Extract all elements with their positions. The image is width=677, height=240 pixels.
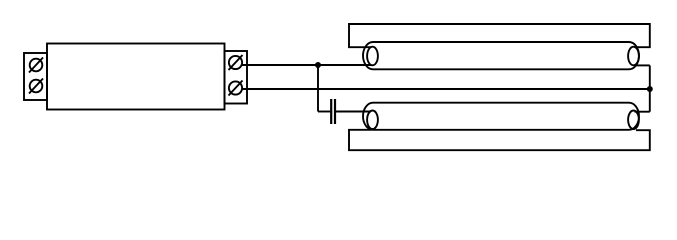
lamp L2 tube envelope: [363, 103, 639, 130]
lamp L1 left electrode: [367, 47, 378, 66]
wire: ballast upper terminal to lamp L1 left electrode: [242, 64, 372, 66]
lamp L2 left electrode: [367, 111, 378, 130]
wire: right bus between lamps: [649, 65, 651, 111]
wire: node A down to capacitor C1: [317, 65, 319, 112]
screw terminal TB1-2: [29, 79, 43, 94]
screw terminal TB2-1: [229, 55, 243, 70]
node A (junction dot): [315, 62, 321, 68]
terminal block TB1 (left): [24, 53, 47, 100]
capacitor C1 plate 1: [330, 99, 332, 124]
screw terminal TB1-1: [29, 58, 43, 73]
terminal block TB2 (right): [225, 51, 248, 104]
wire: lamp L1 filament return loop (top holder): [349, 24, 650, 47]
lamp L1 tube envelope: [363, 42, 639, 69]
lamp L1 right electrode: [628, 47, 639, 66]
capacitor C1 right lead to lamp L2 left electrode: [336, 111, 371, 113]
lamp L2 right electrode: [628, 111, 639, 130]
capacitor C1 left lead: [318, 111, 330, 113]
screw terminal TB2-2: [229, 81, 243, 96]
wire: lamp L2 filament return loop (bottom holder): [349, 130, 650, 150]
node B (junction dot on right bus): [647, 86, 653, 92]
capacitor C1 plate 2: [334, 99, 336, 124]
wire: ballast lower terminal to right bus: [242, 88, 650, 90]
ballast B1 body: [47, 44, 225, 110]
wire: lamp L1 right electrode to bus: [635, 64, 650, 66]
wire: bus to lamp L2 right electrode: [635, 111, 650, 113]
